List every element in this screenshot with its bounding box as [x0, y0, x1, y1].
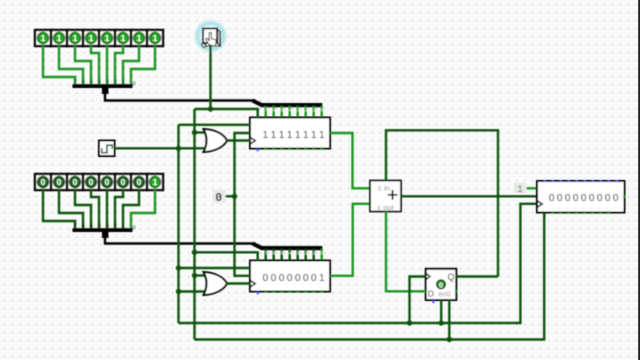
wires row B pins to splitter B (bits 7..1 low) [43, 190, 139, 229]
svg-text:en0: en0 [439, 292, 451, 299]
svg-text:1: 1 [89, 33, 94, 43]
svg-text:c out: c out [377, 203, 394, 212]
svg-text:1: 1 [319, 273, 325, 284]
svg-text:0: 0 [589, 193, 595, 204]
svg-text:5: 5 [281, 251, 284, 256]
svg-text:6: 6 [273, 251, 276, 256]
svg-text:0: 0 [557, 193, 563, 204]
svg-text:1: 1 [311, 130, 317, 141]
svg-text:0: 0 [279, 273, 285, 284]
splitter A bit labels [74, 80, 136, 88]
svg-text:0: 0 [133, 226, 136, 232]
splitter B1 (bus fan-out above register 1) [253, 101, 323, 108]
wire register 2 serial out to adder input B (high) [330, 204, 370, 276]
wire DFF clock riser [410, 277, 426, 324]
svg-text:1: 1 [271, 130, 277, 141]
svg-text:0: 0 [439, 280, 443, 289]
shift register 2 (value 00000001) [250, 261, 330, 295]
svg-text:1: 1 [137, 33, 142, 43]
svg-text:6: 6 [273, 108, 276, 113]
node constant 0 tap [232, 194, 237, 199]
right window border [638, 0, 640, 360]
svg-text:1: 1 [121, 33, 126, 43]
splitter B bit labels [74, 224, 136, 232]
svg-text:0: 0 [295, 273, 301, 284]
wire DFF Q output [456, 275, 498, 277]
wire OR1 output to register 1 clock [227, 139, 250, 141]
svg-text:0: 0 [565, 193, 571, 204]
node feedback at OR1 branch [192, 130, 197, 135]
svg-text:4: 4 [289, 251, 292, 256]
svg-text:1: 1 [263, 130, 269, 141]
svg-text:D: D [428, 288, 434, 298]
node feedback at OR2 branch [192, 273, 197, 278]
OR gate OR2 [204, 272, 228, 295]
svg-text:0: 0 [287, 273, 293, 284]
svg-text:0: 0 [549, 193, 555, 204]
wire adder carry-out to DFF D (high) [386, 212, 426, 292]
svg-text:0: 0 [263, 273, 269, 284]
svg-text:5: 5 [281, 108, 284, 113]
svg-text:0: 0 [133, 82, 136, 88]
svg-text:1: 1 [153, 33, 158, 43]
svg-text:c in: c in [378, 184, 390, 193]
splitter B2 legs into register 2 north ports (bits 7..1 low) [266, 249, 314, 261]
node feedback at reg2 branch [192, 250, 197, 255]
wire zero column to register D inputs [235, 133, 251, 276]
svg-text:0: 0 [613, 193, 619, 204]
splitter B2 (bus fan-out above register 2) [253, 244, 323, 251]
push button BTN with hand cursor [202, 29, 221, 48]
node DFF south2 tap [447, 337, 452, 342]
wire DFF south port 1 drop [440, 300, 442, 323]
wire adder sum to register 3 D [401, 195, 537, 197]
svg-text:0: 0 [573, 193, 579, 204]
wire constant 0 stub [226, 195, 235, 197]
input pin row B (8 one-bit pins, value 00000001) [35, 174, 163, 190]
svg-text:2: 2 [305, 251, 308, 256]
node DFF south1 tap [439, 320, 444, 325]
splitter A (8x1 fan-in to bus) [73, 84, 133, 94]
wire feedback bottom run to register 3 south port 1 [195, 213, 545, 340]
wire DFF south port 2 drop [448, 300, 450, 340]
OR gate OR1 [204, 129, 228, 152]
adder U1 [370, 181, 401, 213]
svg-text:0: 0 [41, 177, 46, 187]
wire clock pin to OR1 input B [115, 147, 206, 149]
svg-text:1: 1 [287, 130, 293, 141]
svg-text:0: 0 [321, 251, 324, 256]
svg-text:1: 1 [153, 177, 158, 187]
wire Q to adder carry-in loop [386, 130, 498, 276]
svg-text:0: 0 [581, 193, 587, 204]
svg-text:1: 1 [319, 130, 325, 141]
svg-text:1: 1 [303, 130, 309, 141]
node clock column at OR2 branch [176, 289, 181, 294]
D flip-flop FF1 [426, 269, 458, 303]
bus wire from splitter B to splitter B2 [105, 237, 256, 244]
svg-text:1: 1 [105, 33, 110, 43]
svg-text:0: 0 [121, 177, 126, 187]
wire feedback to OR2 input A [195, 274, 206, 276]
svg-text:1: 1 [517, 184, 523, 195]
node DFF clock tap [407, 320, 412, 325]
node button tap [208, 106, 213, 111]
bus wire from splitter A to splitter B1 [105, 93, 256, 101]
splitter B1 legs into register 1 north ports (all high) [266, 106, 322, 118]
wire register 1 serial out to adder input A (high) [330, 133, 370, 188]
node clock column at ST2 branch [176, 265, 181, 270]
clock input CLK [99, 141, 115, 157]
svg-text:1: 1 [313, 251, 316, 256]
svg-text:1: 1 [73, 33, 78, 43]
wire register 3 south port stub (high) [543, 213, 545, 219]
wires row A pins to splitter A (all high) [43, 46, 155, 85]
input pin row A (8 one-bit pins, all value 1) [35, 30, 163, 46]
wire clock distribution column [177, 125, 179, 323]
svg-text:7: 7 [265, 108, 268, 113]
splitter B2 bit labels [265, 251, 324, 256]
wire clock column to register 2 ST port [179, 267, 251, 269]
svg-text:0: 0 [311, 273, 317, 284]
node clock/column join [176, 146, 181, 151]
svg-text:4: 4 [289, 108, 292, 113]
wire clock bottom run to register 3 clock [179, 204, 538, 323]
svg-text:0: 0 [105, 177, 110, 187]
svg-text:1: 1 [57, 33, 62, 43]
wire button to feedback net [209, 45, 211, 110]
wire feedback to OR1 input A [195, 131, 206, 133]
svg-text:0: 0 [271, 273, 277, 284]
constant 1 [514, 183, 527, 195]
svg-text:0: 0 [321, 108, 324, 113]
wire clock column to OR2 input B [179, 290, 206, 292]
svg-text:0: 0 [89, 177, 94, 187]
selection halo around button [196, 21, 226, 51]
svg-text:1: 1 [41, 33, 46, 43]
wire clock column to register 1 ST port [179, 124, 251, 126]
shift register 3 (output, value 000000000) [537, 180, 626, 214]
svg-text:0: 0 [303, 273, 309, 284]
splitter B2 leg bit 0 (high) [321, 249, 323, 261]
svg-text:0: 0 [57, 177, 62, 187]
svg-text:1: 1 [313, 108, 316, 113]
wire serial feedback column [193, 109, 195, 340]
svg-text:0: 0 [215, 192, 222, 205]
wire feedback top run to register 1 north port 0 [195, 109, 258, 118]
wire feedback branch to register 2 north port 0 [195, 252, 258, 260]
splitter B (8x1 fan-in to bus) [73, 228, 133, 238]
svg-text:Q: Q [447, 272, 454, 282]
svg-text:0: 0 [73, 177, 78, 187]
wire constant 1 to register 3 ST (high) [527, 187, 538, 189]
wire row B pin 0 (high) [131, 190, 155, 229]
svg-text:3: 3 [297, 251, 300, 256]
svg-text:3: 3 [297, 108, 300, 113]
svg-text:0: 0 [137, 177, 142, 187]
svg-text:0: 0 [605, 193, 611, 204]
svg-text:2: 2 [305, 108, 308, 113]
svg-text:1: 1 [295, 130, 301, 141]
svg-text:0: 0 [597, 193, 603, 204]
svg-text:7: 7 [265, 251, 268, 256]
svg-text:1: 1 [279, 130, 285, 141]
splitter B1 bit labels [265, 108, 324, 113]
wire OR2 output to register 2 clock [227, 282, 250, 284]
constant 0 [213, 190, 226, 206]
shift register 1 (value 11111111) [250, 118, 330, 152]
